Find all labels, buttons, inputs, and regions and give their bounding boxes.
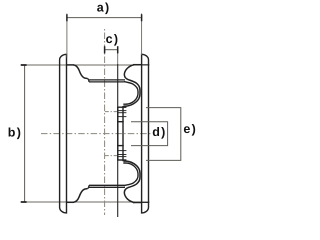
dimension b) end ticks xyxy=(21,65,27,202)
vertical centerline (dash-dot) xyxy=(104,29,106,215)
well bottom lower surface xyxy=(89,81,125,83)
bead seat diameter line bottom (b extension across rim) xyxy=(21,201,150,203)
disc bulb inner contour xyxy=(123,82,138,105)
svg-text:a): a) xyxy=(97,1,111,15)
dimension a) right extension line xyxy=(141,14,143,56)
right bead seat surface xyxy=(133,64,142,66)
svg-text:b): b) xyxy=(8,126,22,140)
dimension a) end ticks xyxy=(67,14,142,21)
svg-text:c): c) xyxy=(106,32,120,46)
mounting-face extension line (c extension, full height) xyxy=(117,46,119,64)
disc face top edge xyxy=(117,106,126,108)
disc face outer line xyxy=(122,106,124,161)
dimension e) bracket xyxy=(146,108,181,161)
dimension d) bracket xyxy=(131,122,168,146)
bolt hole centerline (dash-dot) xyxy=(105,111,118,113)
dimension a) left extension line xyxy=(66,14,68,58)
hub bore lower edge xyxy=(117,145,124,147)
well bottom upper surface xyxy=(89,79,125,81)
bolt hole upper edge xyxy=(117,110,126,112)
well entry step xyxy=(87,78,89,82)
mirrored lower rim profile half xyxy=(67,151,150,203)
bolt hole boss edge xyxy=(117,116,126,118)
dimension a) line xyxy=(67,17,142,19)
svg-text:d): d) xyxy=(152,125,166,139)
dimension c) end ticks xyxy=(105,46,118,53)
hub bore upper edge xyxy=(117,121,124,123)
svg-text:e): e) xyxy=(183,122,197,136)
left bead-to-well S curve xyxy=(74,65,88,79)
left rim flange outline xyxy=(60,54,67,213)
dimension c) line xyxy=(105,49,118,51)
bead seat diameter line top (b extension across rim) xyxy=(21,64,150,66)
bolt hole lower edge xyxy=(117,112,126,114)
disc bulb outer contour xyxy=(123,65,140,107)
left bead seat surface xyxy=(67,64,75,66)
horizontal centerline (dash-dot) xyxy=(41,133,152,135)
right rim flange outline xyxy=(142,54,149,213)
dimension b) line xyxy=(24,65,26,202)
disc face inner line xyxy=(117,107,119,160)
upper rim profile half xyxy=(67,65,150,117)
